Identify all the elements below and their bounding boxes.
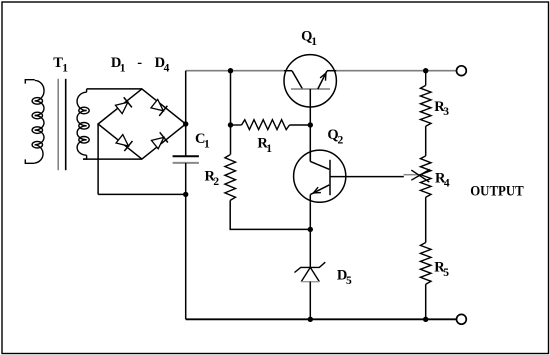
- wire positive rail top (gray): [186, 70, 457, 72]
- svg-text:OUTPUT: OUTPUT: [470, 184, 524, 200]
- svg-text:2: 2: [338, 135, 344, 147]
- diode D1 (left-top arm): [115, 97, 132, 114]
- bridge diamond wires D1-D4: [98, 89, 186, 159]
- capacitor C1: [173, 156, 199, 194]
- wire from bridge left vertex down: [97, 124, 99, 194]
- potentiometer R4: [420, 156, 431, 197]
- node D5 bottom rail junction: [308, 317, 313, 322]
- zener diode D5: [295, 262, 326, 282]
- label Q1: [301, 29, 317, 48]
- potentiometer wiper arrow at R4: [404, 169, 430, 182]
- svg-text:1: 1: [311, 36, 317, 48]
- svg-text:-: -: [137, 55, 142, 71]
- wire bottom rail: [186, 318, 457, 320]
- svg-text:4: 4: [444, 178, 450, 190]
- node R1/R2 tee: [228, 122, 233, 127]
- node R1/Q1 base/Q2 collector: [308, 122, 313, 127]
- resistor R2: [225, 155, 236, 201]
- label D1 - D4: [111, 55, 170, 74]
- transformer T1 secondary winding: [77, 89, 89, 159]
- svg-text:1: 1: [266, 143, 272, 155]
- diode D3 (left-bottom arm): [115, 134, 132, 151]
- diode D4 (bottom-right arm): [151, 132, 168, 149]
- wire R4 to R5: [425, 197, 427, 242]
- label T1: [53, 55, 68, 74]
- wire Q2 collector from R1 node: [309, 125, 311, 161]
- label Q2: [327, 127, 343, 146]
- wire R3 to R4: [425, 126, 427, 156]
- transistor Q2: [294, 150, 346, 202]
- terminal output positive: [457, 66, 467, 76]
- label R4: [435, 170, 450, 189]
- label D5: [337, 268, 352, 288]
- label R2: [205, 169, 220, 188]
- wire R2 branch from rail: [230, 71, 232, 155]
- wire negative vertical down to bottom rail: [185, 194, 187, 319]
- label C1: [195, 131, 210, 150]
- wire negative horizontal to C1 bottom: [98, 193, 186, 195]
- svg-text:4: 4: [164, 62, 170, 74]
- svg-text:2: 2: [213, 176, 219, 188]
- wire secondary bottom lead: [83, 158, 142, 160]
- wire to zener D5: [309, 229, 311, 267]
- node C1 bottom junction: [183, 192, 188, 197]
- label R5: [434, 260, 449, 279]
- node R5 bottom rail junction: [423, 317, 428, 322]
- wire R5 to bottom rail: [425, 284, 427, 319]
- svg-text:1: 1: [120, 62, 126, 74]
- wire bridge + vertical to rail: [185, 71, 187, 157]
- resistor R3: [420, 71, 431, 127]
- transformer T1 primary winding: [25, 80, 44, 164]
- label OUTPUT: [470, 184, 524, 200]
- label R1: [257, 136, 272, 155]
- svg-text:5: 5: [443, 267, 449, 279]
- resistor R1: [231, 120, 311, 130]
- wire secondary top lead: [87, 88, 142, 90]
- svg-text:1: 1: [204, 139, 210, 151]
- diode D2 (top-right arm): [150, 99, 167, 116]
- transformer T1 core: [58, 79, 65, 170]
- wire Q2 emitter down: [309, 202, 311, 229]
- node Q2 emitter junction: [308, 227, 313, 232]
- transistor Q1: [284, 55, 336, 107]
- wire Q1 base to R1 node: [309, 107, 311, 125]
- node top rail R3 branch: [423, 68, 428, 73]
- wire zener to bottom rail: [309, 282, 311, 320]
- wire R2 bottom to Q2 emitter node: [230, 200, 310, 229]
- svg-text:3: 3: [443, 106, 449, 118]
- wire Q2 base to R4 wiper: [330, 176, 404, 178]
- resistor R5: [420, 243, 431, 285]
- svg-text:1: 1: [62, 62, 68, 74]
- terminal output negative: [457, 314, 467, 324]
- label R3: [434, 99, 449, 118]
- node top rail R2 branch: [228, 68, 233, 73]
- node bridge output junction: [183, 121, 188, 126]
- svg-text:5: 5: [346, 275, 352, 287]
